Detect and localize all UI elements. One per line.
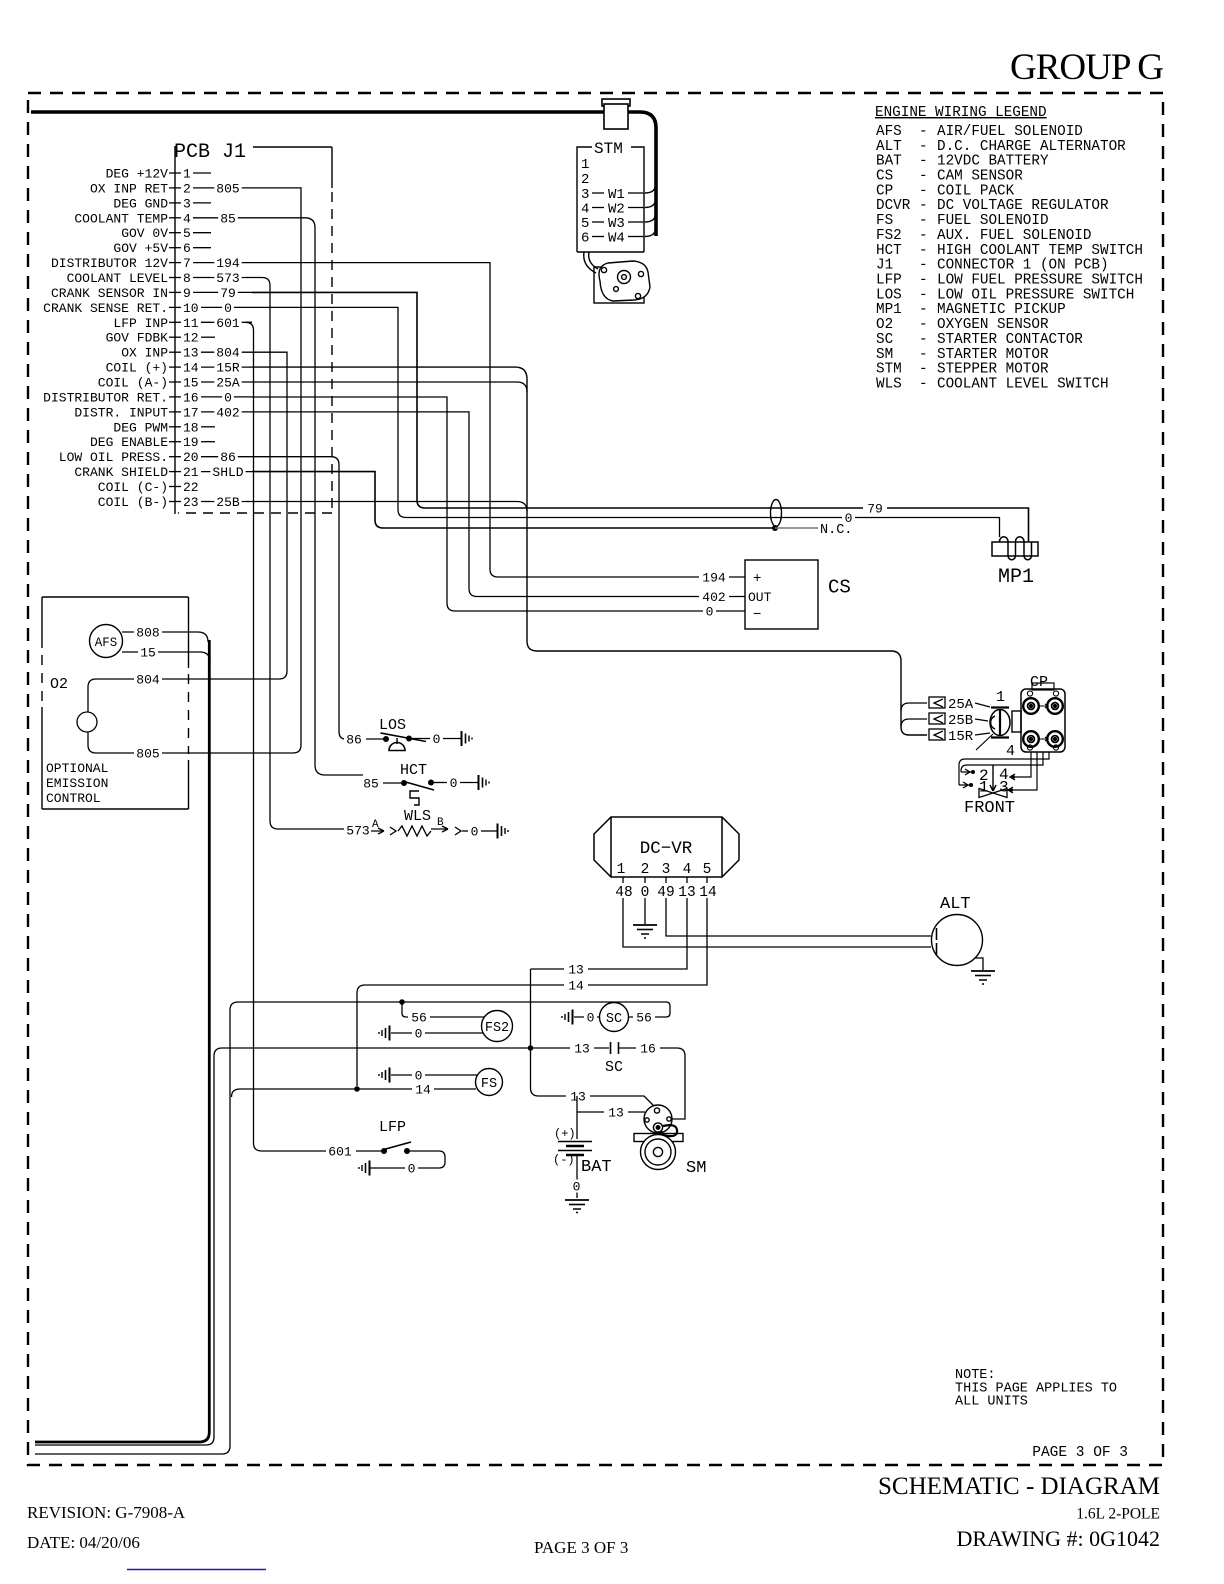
svg-text:HCT: HCT xyxy=(400,762,427,779)
svg-text:-: - xyxy=(919,362,928,378)
wire 13 drop from DC-VR run xyxy=(530,969,532,1048)
ground (HCT) xyxy=(479,775,490,790)
twisted pair ellipse xyxy=(771,500,782,527)
svg-text:+: + xyxy=(753,571,761,587)
svg-text:1: 1 xyxy=(581,157,589,173)
ground (ALT) xyxy=(971,971,995,984)
svg-text:-: - xyxy=(919,332,928,348)
svg-text:OX INP: OX INP xyxy=(121,346,168,361)
solenoid FS2 xyxy=(482,1011,513,1042)
svg-text:601: 601 xyxy=(328,1145,352,1160)
svg-text:17: 17 xyxy=(183,405,199,420)
svg-text:CS: CS xyxy=(828,577,851,599)
svg-text:DATE: 04/20/06: DATE: 04/20/06 xyxy=(27,1533,140,1552)
svg-text:CP: CP xyxy=(876,183,893,199)
wire 573: J1 pin8 to WLS xyxy=(252,278,344,830)
svg-text:COOLANT LEVEL: COOLANT LEVEL xyxy=(67,271,168,286)
svg-text:MAGNETIC PICKUP: MAGNETIC PICKUP xyxy=(937,302,1066,318)
svg-text:0: 0 xyxy=(471,825,479,840)
wire FS2 56 drop xyxy=(402,1002,486,1017)
svg-text:PCB J1: PCB J1 xyxy=(174,141,246,164)
svg-text:CS: CS xyxy=(876,169,893,185)
svg-text:573: 573 xyxy=(346,824,369,839)
AFS solenoid circle xyxy=(90,625,123,658)
svg-text:LOW OIL PRESSURE SWITCH: LOW OIL PRESSURE SWITCH xyxy=(937,287,1134,303)
svg-text:1: 1 xyxy=(183,167,191,182)
svg-text:0: 0 xyxy=(415,1027,423,1042)
svg-text:SC: SC xyxy=(876,332,893,348)
label 805 on wire xyxy=(134,747,162,762)
wire 16 to SM xyxy=(660,1048,685,1119)
wire 194: J1 pin7 to CS + xyxy=(252,263,745,577)
wire 13: DC-VR pin4 down xyxy=(531,898,688,969)
svg-text:0: 0 xyxy=(408,1162,416,1177)
DC-VR wire numbers xyxy=(615,885,716,901)
svg-text:CRANK SENSOR IN: CRANK SENSOR IN xyxy=(51,286,168,301)
svg-text:LOS: LOS xyxy=(876,287,902,303)
wire 0: J1 pin16 to CS - xyxy=(252,397,745,611)
svg-text:COIL (C-): COIL (C-) xyxy=(98,480,168,495)
svg-text:805: 805 xyxy=(216,181,239,196)
wire 805: J1 pin2 to O2 sensor xyxy=(96,188,301,753)
svg-text:AFS: AFS xyxy=(95,636,118,650)
svg-text:DEG PWM: DEG PWM xyxy=(113,420,168,435)
CP wires to front-view pins xyxy=(959,752,1049,790)
svg-text:D.C. CHARGE ALTERNATOR: D.C. CHARGE ALTERNATOR xyxy=(937,139,1126,155)
connector PCB J1 xyxy=(174,141,332,514)
wire label 402 at CS xyxy=(699,590,729,605)
ground (LOS) xyxy=(462,731,473,746)
svg-text:-: - xyxy=(919,228,928,244)
svg-text:PAGE 3 OF 3: PAGE 3 OF 3 xyxy=(534,1538,628,1557)
svg-text:15R: 15R xyxy=(216,361,240,376)
svg-text:14: 14 xyxy=(183,361,199,376)
wire FS 14 with page-edge run xyxy=(232,1089,358,1097)
svg-text:56: 56 xyxy=(411,1011,427,1026)
svg-text:OUT: OUT xyxy=(748,590,772,605)
svg-text:16: 16 xyxy=(183,390,199,405)
junction dot FS-14 xyxy=(354,1086,360,1092)
svg-text:86: 86 xyxy=(346,733,362,748)
svg-text:ALT: ALT xyxy=(876,139,902,155)
wire 25B: J1 pin23 joining bundle xyxy=(252,502,527,512)
svg-text:3: 3 xyxy=(183,196,191,211)
STM pin 3 W1 xyxy=(581,187,644,203)
svg-text:MP1: MP1 xyxy=(998,566,1034,589)
ground (FS2) xyxy=(379,1026,390,1041)
svg-text:15: 15 xyxy=(140,646,156,661)
svg-text:AUX. FUEL SOLENOID: AUX. FUEL SOLENOID xyxy=(937,228,1091,244)
svg-text:J1: J1 xyxy=(876,258,893,274)
wire 79: J1 pin9 to MP1 xyxy=(252,292,1029,542)
svg-text:DRAWING #: 0G1042: DRAWING #: 0G1042 xyxy=(956,1526,1160,1551)
svg-text:GOV FDBK: GOV FDBK xyxy=(106,331,169,346)
wire 85: J1 pin4 to HCT xyxy=(252,218,363,775)
svg-text:12VDC BATTERY: 12VDC BATTERY xyxy=(937,154,1049,170)
svg-text:16: 16 xyxy=(640,1042,656,1057)
svg-text:DCVR: DCVR xyxy=(876,198,911,214)
svg-text:LOW OIL PRESS.: LOW OIL PRESS. xyxy=(59,450,168,465)
svg-text:10: 10 xyxy=(183,301,199,316)
wire label 0 (CS) xyxy=(703,605,716,620)
label 804 on wire xyxy=(134,673,162,688)
svg-text:22: 22 xyxy=(183,480,199,495)
J1 pin 15 COIL (A-) wire 25A xyxy=(98,376,252,391)
svg-text:W4: W4 xyxy=(608,231,625,247)
shield junction dot xyxy=(772,525,778,531)
svg-text:STARTER CONTACTOR: STARTER CONTACTOR xyxy=(937,332,1083,348)
DC-VR pin stubs xyxy=(623,877,707,883)
wire 0: DC-VR pin2 to ground xyxy=(644,898,646,924)
front orientation symbol xyxy=(979,789,1007,798)
wire 48: DC-VR pin1 to ALT xyxy=(623,898,931,947)
svg-text:-: - xyxy=(919,347,928,363)
svg-text:AIR/FUEL SOLENOID: AIR/FUEL SOLENOID xyxy=(937,124,1083,140)
J1 pin 18 DEG PWM xyxy=(113,420,215,435)
J1 pin 4 COOLANT TEMP wire 85 xyxy=(74,211,252,226)
svg-text:2: 2 xyxy=(641,862,650,878)
svg-text:14: 14 xyxy=(415,1083,431,1098)
wire STM W4 hook xyxy=(645,227,656,237)
starter motor SM xyxy=(634,1105,683,1170)
svg-text:OPTIONAL: OPTIONAL xyxy=(46,761,108,776)
svg-text:LFP: LFP xyxy=(379,1119,406,1136)
svg-text:FRONT: FRONT xyxy=(964,799,1015,818)
resistor element WLS xyxy=(398,826,431,836)
svg-text:-: - xyxy=(919,139,928,155)
svg-text:A: A xyxy=(372,819,379,831)
svg-text:PAGE 3 OF 3: PAGE 3 OF 3 xyxy=(1032,1445,1128,1461)
CP small coupler xyxy=(1012,711,1021,732)
svg-text:194: 194 xyxy=(702,571,726,586)
pointer line for 4 xyxy=(976,734,993,750)
svg-text:25B: 25B xyxy=(948,713,973,729)
svg-text:O2: O2 xyxy=(876,317,893,333)
svg-text:OXYGEN SENSOR: OXYGEN SENSOR xyxy=(937,317,1049,333)
svg-text:BAT: BAT xyxy=(581,1158,612,1177)
J1 pin 19 DEG ENABLE xyxy=(90,435,215,450)
svg-text:CONTROL: CONTROL xyxy=(46,791,101,806)
svg-text:CRANK SENSE RET.: CRANK SENSE RET. xyxy=(43,301,168,316)
svg-text:4: 4 xyxy=(683,862,692,878)
J1 pin 10 CRANK SENSE RET. wire 0 xyxy=(43,301,252,316)
wire SC 56 riser xyxy=(657,1002,670,1017)
svg-text:1: 1 xyxy=(996,689,1005,706)
STM pin 5 W3 xyxy=(581,216,644,232)
svg-text:SC: SC xyxy=(606,1012,622,1027)
connector STM box xyxy=(577,140,644,252)
svg-text:SHLD: SHLD xyxy=(212,465,243,480)
svg-text:DEG GND: DEG GND xyxy=(113,196,168,211)
svg-text:48: 48 xyxy=(615,885,632,901)
svg-text:BAT: BAT xyxy=(876,154,902,170)
CP coil towers xyxy=(1023,698,1063,747)
svg-text:-: - xyxy=(919,317,928,333)
svg-text:-: - xyxy=(919,213,928,229)
svg-text:WLS: WLS xyxy=(876,377,902,393)
wire STM W2 hook xyxy=(645,198,656,208)
J1 pin 2 OX INP RET wire 805 xyxy=(90,181,252,196)
svg-text:-: - xyxy=(919,258,928,274)
svg-text:0: 0 xyxy=(433,732,441,747)
svg-text:ENGINE WIRING LEGEND: ENGINE WIRING LEGEND xyxy=(875,105,1047,121)
svg-text:13: 13 xyxy=(568,963,584,978)
svg-text:ALL UNITS: ALL UNITS xyxy=(955,1395,1028,1410)
svg-text:LFP INP: LFP INP xyxy=(113,316,168,331)
J1 pin 21 CRANK SHIELD wire SHLD xyxy=(74,465,252,480)
svg-text:5: 5 xyxy=(183,226,191,241)
svg-text:4: 4 xyxy=(1006,743,1015,760)
svg-text:0: 0 xyxy=(573,1180,581,1195)
wire label 13 xyxy=(564,963,588,978)
svg-text:14: 14 xyxy=(568,979,584,994)
J1 pin 16 DISTRIBUTOR RET. wire 0 xyxy=(43,390,252,405)
wire 14: DC-VR pin5 down xyxy=(357,898,707,1086)
wire 15 from AFS xyxy=(122,652,210,662)
connector CP feed 15R xyxy=(929,729,945,740)
wire 13 to BAT xyxy=(577,1096,645,1139)
wire 0: J1 pin10 to MP1 xyxy=(252,307,1000,537)
note text xyxy=(955,1368,1117,1410)
CP front divider arrow xyxy=(990,765,996,791)
svg-text:SC: SC xyxy=(605,1059,623,1076)
label 13 at SC contact xyxy=(570,1042,594,1057)
svg-text:FS: FS xyxy=(876,213,893,229)
regulator DC-VR xyxy=(594,817,739,877)
svg-text:DC−VR: DC−VR xyxy=(640,839,693,859)
wire thick top bus (808/15 feed) xyxy=(31,112,656,236)
svg-text:FS2: FS2 xyxy=(876,228,902,244)
wire CP branch 25B xyxy=(901,719,927,727)
wire 13/SC contact run to page edge xyxy=(35,1048,609,1445)
svg-text:4: 4 xyxy=(183,211,191,226)
svg-text:13: 13 xyxy=(183,346,199,361)
legend ENGINE WIRING LEGEND xyxy=(875,105,1143,393)
ground (LFP) xyxy=(359,1161,370,1176)
svg-text:MP1: MP1 xyxy=(876,302,902,318)
svg-text:25A: 25A xyxy=(948,697,974,713)
J1 pin 9 CRANK SENSOR IN wire 79 xyxy=(51,286,252,301)
svg-text:-: - xyxy=(919,124,928,140)
svg-text:FS2: FS2 xyxy=(485,1021,509,1036)
svg-text:HCT: HCT xyxy=(876,243,902,259)
O2 optional emission control box xyxy=(42,597,189,809)
wire 601: J1 pin11 to LFP xyxy=(246,322,328,1151)
svg-text:2: 2 xyxy=(183,181,191,196)
svg-text:COIL (+): COIL (+) xyxy=(106,361,168,376)
connector on top bus xyxy=(602,99,630,129)
svg-text:0: 0 xyxy=(415,1069,423,1084)
svg-text:-: - xyxy=(919,243,928,259)
ground (BAT) xyxy=(565,1200,589,1213)
ground (FS) xyxy=(379,1068,390,1083)
J1 pin 1 DEG +12V xyxy=(106,167,211,182)
ground (WLS) xyxy=(498,824,509,839)
wire thick 808/15 drop to page edge xyxy=(35,640,209,1442)
svg-text:FS: FS xyxy=(481,1077,497,1092)
svg-text:3: 3 xyxy=(662,862,671,878)
svg-text:LOW FUEL PRESSURE SWITCH: LOW FUEL PRESSURE SWITCH xyxy=(937,273,1143,289)
svg-text:6: 6 xyxy=(581,231,589,247)
J1 pin 20 LOW OIL PRESS. wire 86 xyxy=(59,450,252,465)
svg-text:13: 13 xyxy=(608,1106,624,1121)
svg-text:20: 20 xyxy=(183,450,199,465)
wire SHLD: J1 pin21 to N.C. xyxy=(252,472,775,528)
svg-text:SM: SM xyxy=(876,347,893,363)
svg-text:DISTRIBUTOR RET.: DISTRIBUTOR RET. xyxy=(43,390,168,405)
STM pin 6 W4 xyxy=(581,231,644,247)
wire label 194 at CS xyxy=(699,571,729,586)
svg-text:8: 8 xyxy=(183,271,191,286)
J1 pin 12 GOV FDBK xyxy=(106,331,215,346)
svg-text:DISTRIBUTOR 12V: DISTRIBUTOR 12V xyxy=(51,256,168,271)
svg-text:573: 573 xyxy=(216,271,239,286)
svg-text:2: 2 xyxy=(581,172,589,188)
wire SC-56 run to page edge xyxy=(35,1002,666,1454)
svg-text:WLS: WLS xyxy=(404,808,431,825)
svg-text:CAM SENSOR: CAM SENSOR xyxy=(937,169,1023,185)
svg-text:EMISSION: EMISSION xyxy=(46,776,108,791)
svg-text:ALT: ALT xyxy=(940,895,971,914)
svg-text:0: 0 xyxy=(450,776,458,791)
J1 pin 6 GOV +5V xyxy=(113,241,211,256)
svg-text:601: 601 xyxy=(216,316,240,331)
svg-text:13: 13 xyxy=(570,1090,586,1105)
solenoid SC coil xyxy=(600,1003,629,1032)
svg-text:LFP: LFP xyxy=(876,273,902,289)
svg-text:1: 1 xyxy=(979,779,989,797)
svg-text:AFS: AFS xyxy=(876,124,902,140)
svg-text:15: 15 xyxy=(183,376,199,391)
svg-text:25B: 25B xyxy=(216,495,240,510)
wire FS2 0 xyxy=(391,1032,487,1034)
svg-text:STM: STM xyxy=(594,140,623,158)
svg-text:-: - xyxy=(919,183,928,199)
svg-text:808: 808 xyxy=(136,626,159,641)
svg-text:(-): (-) xyxy=(553,1153,575,1167)
wire STM W1 hook xyxy=(645,183,656,193)
svg-text:CONNECTOR 1 (ON PCB): CONNECTOR 1 (ON PCB) xyxy=(937,258,1109,274)
svg-text:DEG +12V: DEG +12V xyxy=(106,167,169,182)
svg-text:15R: 15R xyxy=(948,729,974,745)
J1 pin 5 GOV 0V xyxy=(121,226,211,241)
wire STM W3 hook xyxy=(645,212,656,222)
wire SC coil 56 xyxy=(629,1016,657,1018)
svg-text:9: 9 xyxy=(183,286,191,301)
svg-text:79: 79 xyxy=(220,286,236,301)
wire label 79 xyxy=(863,502,887,517)
svg-text:12: 12 xyxy=(183,331,199,346)
svg-text:SM: SM xyxy=(686,1159,706,1178)
svg-text:11: 11 xyxy=(183,316,199,331)
svg-text:COOLANT TEMP: COOLANT TEMP xyxy=(74,211,168,226)
wire SC coil 0 xyxy=(574,1016,600,1018)
wire 402: J1 pin17 to CS OUT xyxy=(252,412,745,597)
svg-text:GOV 0V: GOV 0V xyxy=(121,226,168,241)
svg-text:0: 0 xyxy=(587,1011,595,1026)
J1 pin 14 COIL (+) wire 15R xyxy=(106,361,252,376)
svg-text:804: 804 xyxy=(216,346,240,361)
J1 pin 22 COIL (C-) xyxy=(98,480,199,495)
J1 pin 11 LFP INP wire 601 xyxy=(113,316,252,331)
svg-text:805: 805 xyxy=(136,747,159,762)
svg-text:1.6L 2-POLE: 1.6L 2-POLE xyxy=(1076,1506,1160,1523)
svg-text:13: 13 xyxy=(574,1042,590,1057)
label OPTIONAL EMISSION CONTROL xyxy=(46,761,108,806)
J1 pin 17 DISTR. INPUT wire 402 xyxy=(74,405,252,420)
wire FS 0 xyxy=(391,1074,477,1076)
svg-text:402: 402 xyxy=(702,590,725,605)
svg-text:HIGH COOLANT TEMP SWITCH: HIGH COOLANT TEMP SWITCH xyxy=(937,243,1143,259)
wire CP branch 25A xyxy=(901,703,927,711)
contactor SC contact xyxy=(611,1042,619,1054)
svg-text:-: - xyxy=(919,198,928,214)
svg-text:194: 194 xyxy=(216,256,240,271)
J1 pin 8 COOLANT LEVEL wire 573 xyxy=(67,271,252,286)
svg-text:-: - xyxy=(919,302,928,318)
svg-text:85: 85 xyxy=(220,211,236,226)
svg-text:0: 0 xyxy=(224,390,232,405)
svg-text:COIL (B-): COIL (B-) xyxy=(98,495,168,510)
wire label 0 (MP1) xyxy=(842,511,855,526)
svg-text:DC VOLTAGE REGULATOR: DC VOLTAGE REGULATOR xyxy=(937,198,1109,214)
solenoid FS xyxy=(476,1069,503,1096)
J1 pin 7 DISTRIBUTOR 12V wire 194 xyxy=(51,256,252,271)
wire 15R/25A/25B bundle down xyxy=(252,367,927,735)
svg-text:FUEL SOLENOID: FUEL SOLENOID xyxy=(937,213,1049,229)
svg-text:1: 1 xyxy=(617,862,626,878)
junction dot 13 xyxy=(528,1045,534,1051)
connector CP feed 25A xyxy=(929,697,945,708)
svg-text:-: - xyxy=(919,287,928,303)
svg-text:-: - xyxy=(919,154,928,170)
J1 pin 3 DEG GND xyxy=(113,196,211,211)
sensor CS cam sensor box xyxy=(745,560,818,629)
svg-text:DEG ENABLE: DEG ENABLE xyxy=(90,435,168,450)
connector CP feed 25B xyxy=(929,713,945,724)
svg-text:6: 6 xyxy=(183,241,191,256)
wire N.C. stub (gray) xyxy=(775,527,818,529)
svg-text:79: 79 xyxy=(867,502,883,517)
wire 25A joining bundle xyxy=(252,382,527,392)
J1 pin 13 OX INP wire 804 xyxy=(121,346,252,361)
svg-text:STM: STM xyxy=(876,362,902,378)
svg-text:COIL (A-): COIL (A-) xyxy=(98,376,168,391)
svg-text:CRANK SHIELD: CRANK SHIELD xyxy=(74,465,168,480)
ground (DC-VR) xyxy=(633,925,657,938)
sensor MP1 magnetic pickup xyxy=(992,537,1038,560)
svg-text:COOLANT LEVEL SWITCH: COOLANT LEVEL SWITCH xyxy=(937,377,1109,393)
wire 49: DC-VR pin3 to ALT xyxy=(666,898,931,936)
svg-text:21: 21 xyxy=(183,465,199,480)
J1 pin 23 COIL (B-) wire 25B xyxy=(98,495,252,510)
footer blue rule xyxy=(127,1569,266,1571)
svg-text:OX INP RET: OX INP RET xyxy=(90,181,168,196)
svg-text:DISTR. INPUT: DISTR. INPUT xyxy=(74,405,168,420)
svg-text:804: 804 xyxy=(136,673,160,688)
wire 808 from AFS xyxy=(122,632,208,642)
svg-text:GOV +5V: GOV +5V xyxy=(113,241,168,256)
DC-VR pin numbers xyxy=(617,862,712,878)
junction dot FS2-56 xyxy=(399,999,405,1005)
svg-text:-: - xyxy=(919,169,928,185)
STM pin 4 W2 xyxy=(581,202,644,218)
svg-text:LOS: LOS xyxy=(379,717,406,734)
svg-text:−: − xyxy=(753,607,761,623)
svg-text:SCHEMATIC - DIAGRAM: SCHEMATIC - DIAGRAM xyxy=(878,1473,1160,1500)
wire BAT 0 to ground xyxy=(576,1155,578,1198)
wire 13 to SM solenoid xyxy=(531,1048,657,1108)
